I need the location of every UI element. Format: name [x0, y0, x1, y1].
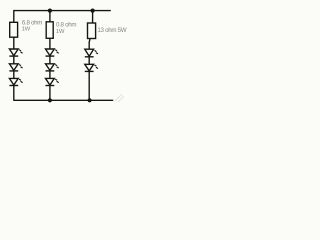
wire branch2 bottom lead [49, 86, 51, 101]
node junction top branch3 [91, 9, 95, 13]
node junction top branch2 [48, 9, 52, 13]
wire branch1 bottom lead [13, 86, 15, 101]
svg-text:1W: 1W [56, 29, 65, 35]
wire branch2 top lead [49, 11, 51, 22]
svg-text:0.8 ohm: 0.8 ohm [56, 22, 76, 29]
node junction bottom branch3 [88, 98, 92, 102]
wire D1 to D2 [13, 56, 15, 64]
LED D2 [9, 64, 22, 71]
wire R3 to D7 [88, 39, 91, 50]
LED D3 [9, 78, 22, 85]
wire branch3 bottom lead [88, 71, 90, 100]
wire branch1 top lead [13, 11, 15, 23]
resistor R2 [46, 22, 53, 39]
wire D7 to D8 [88, 57, 90, 65]
resistor R3 [88, 23, 96, 39]
resistor R1 [10, 22, 18, 37]
wire D5 to D6 [49, 71, 51, 79]
wire bottom rail [13, 99, 113, 101]
svg-text:1W: 1W [22, 27, 31, 33]
svg-text:6.8 ohm: 6.8 ohm [22, 19, 42, 26]
LED D8 [85, 64, 98, 71]
wire branch3 top lead [92, 11, 94, 23]
LED D1 [9, 49, 22, 56]
wire R1 to D1 [13, 37, 15, 49]
wire top rail [13, 10, 111, 12]
LED D6 [46, 78, 59, 85]
LED D4 [46, 49, 59, 56]
LED D5 [46, 64, 59, 71]
svg-text:13 ohm 5W: 13 ohm 5W [97, 27, 126, 34]
wire D2 to D3 [13, 71, 15, 79]
node junction bottom branch2 [48, 98, 52, 102]
wire R2 to D4 [49, 38, 51, 49]
LED D7 [85, 49, 98, 57]
wire D4 to D5 [49, 56, 51, 64]
faint artifact smudge near bottom rail end [115, 94, 124, 102]
